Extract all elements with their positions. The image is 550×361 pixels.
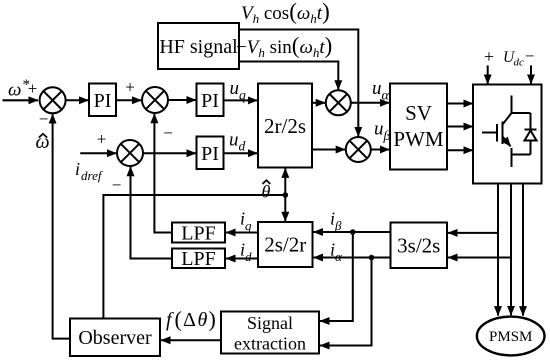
- summer circle 2: [142, 87, 168, 113]
- diode D1: [512, 113, 537, 155]
- wire PI2 to 2r2s uq: [224, 99, 258, 101]
- svg-text:α: α: [335, 249, 343, 264]
- multiplier M1: [326, 90, 351, 115]
- wire summer1 to PI1: [66, 99, 89, 101]
- svg-text:i: i: [75, 159, 80, 179]
- wire omega-hat from observer to summer1: [53, 114, 70, 339]
- svg-text:SV: SV: [405, 101, 432, 125]
- block inverter: [473, 85, 542, 184]
- wire summer3 to PI3: [143, 152, 196, 154]
- wire 2r2s to M2: [312, 149, 345, 151]
- wire inverter phase B: [510, 184, 512, 316]
- junction dot ialpha: [369, 255, 375, 261]
- svg-text:PI: PI: [94, 90, 112, 112]
- wire theta to 2r2s: [284, 168, 286, 195]
- svg-text:HF signal: HF signal: [159, 36, 238, 58]
- svg-text:θ: θ: [262, 182, 271, 202]
- multiplier M2: [346, 137, 371, 162]
- svg-text:u: u: [230, 78, 240, 99]
- svg-text:LPF: LPF: [181, 223, 215, 245]
- svg-text:Δ: Δ: [183, 309, 196, 331]
- wire Udc plus arrow: [487, 65, 489, 84]
- wire idref input: [80, 152, 116, 154]
- svg-text:2s/2r: 2s/2r: [264, 233, 306, 257]
- svg-text:d: d: [239, 139, 246, 154]
- svg-text:PI: PI: [201, 90, 219, 112]
- wire theta to 2s2r: [284, 195, 286, 221]
- block LPF1: [172, 223, 225, 243]
- svg-text:dref: dref: [81, 168, 104, 183]
- wire theta-hat from observer: [103, 195, 285, 319]
- wire HF cos output to multiplier M2: [239, 30, 358, 137]
- wire 3s2s to 2s2r ibeta: [314, 231, 391, 233]
- svg-text:): ): [209, 307, 216, 332]
- block 2r/2s: [258, 84, 312, 168]
- svg-text:q: q: [245, 218, 252, 233]
- svg-text:+: +: [125, 78, 135, 97]
- block Signal extraction: [221, 312, 319, 354]
- svg-text:3s/2s: 3s/2s: [397, 234, 440, 258]
- wire 3s2s to 2s2r ialpha: [314, 257, 391, 259]
- wire SVPWM to inverter 2: [447, 126, 473, 128]
- block 3s/2s: [391, 223, 448, 269]
- wire signal extraction to observer: [161, 339, 221, 341]
- wire 2s2r to LPF2 id: [226, 258, 258, 260]
- svg-text:Signal: Signal: [247, 313, 293, 333]
- svg-text:−: −: [163, 124, 173, 143]
- svg-text:α: α: [382, 89, 390, 104]
- block SV PWM: [390, 84, 447, 170]
- junction dot theta: [283, 192, 289, 198]
- svg-text:u: u: [372, 78, 382, 99]
- svg-text:ω: ω: [8, 80, 21, 101]
- wire HF sin output to multiplier M1: [239, 62, 338, 90]
- wire inverter phase A: [497, 184, 499, 316]
- svg-text:u: u: [229, 130, 239, 151]
- block LPF2: [172, 249, 225, 269]
- summer circle 1: [40, 87, 66, 113]
- svg-text:+: +: [28, 79, 38, 98]
- wire PI3 to 2r2s ud: [224, 152, 258, 154]
- wire 2s2r to LPF1 iq: [226, 232, 258, 234]
- block PMSM: [477, 317, 545, 356]
- svg-text:2r/2s: 2r/2s: [264, 114, 306, 138]
- summer circle 3: [117, 140, 143, 166]
- svg-text:d: d: [245, 249, 252, 264]
- wire SVPWM to inverter 3: [447, 149, 473, 151]
- wire LPF1 feedback to summer2: [154, 114, 172, 233]
- wire Udc minus arrow: [530, 65, 532, 84]
- wire SVPWM to inverter 1: [447, 103, 473, 105]
- svg-text:extraction: extraction: [234, 334, 306, 354]
- junction dot ibeta: [350, 229, 356, 235]
- svg-text:−: −: [525, 47, 535, 66]
- wire ialpha to signal extraction: [320, 258, 372, 346]
- svg-text:(: (: [175, 307, 182, 332]
- block Observer: [70, 319, 160, 357]
- block PI3: [197, 137, 224, 170]
- svg-text:q: q: [239, 88, 246, 103]
- svg-text:PWM: PWM: [393, 127, 444, 151]
- wire LPF2 feedback to summer3: [131, 167, 173, 259]
- svg-text:β: β: [334, 218, 342, 233]
- svg-text:PMSM: PMSM: [489, 329, 532, 345]
- block PI2: [197, 84, 224, 117]
- wire inverter phase C: [522, 184, 524, 316]
- svg-text:Observer: Observer: [78, 327, 152, 349]
- wire phase B tap to 3s2s: [448, 257, 511, 259]
- wire phase A tap to 3s2s: [448, 232, 498, 234]
- svg-text:+: +: [97, 130, 107, 149]
- wire 2r2s to M1: [312, 102, 325, 104]
- wire M1 to SVPWM ualpha: [351, 102, 390, 104]
- wire omega* input: [3, 99, 39, 101]
- block 2s/2r: [258, 222, 313, 267]
- svg-text:dc: dc: [514, 57, 525, 69]
- svg-text:PI: PI: [201, 143, 219, 165]
- transistor emitter arrow: [503, 137, 511, 147]
- wire PI1 to summer2: [116, 99, 142, 101]
- svg-text:−: −: [112, 176, 122, 195]
- svg-text:+: +: [484, 47, 494, 67]
- transistor IGBT: [482, 96, 531, 168]
- svg-text:u: u: [374, 119, 384, 140]
- svg-text:θ: θ: [198, 309, 208, 331]
- block PI1: [89, 84, 116, 117]
- svg-text:LPF: LPF: [181, 248, 215, 270]
- block HF signal: [158, 23, 239, 69]
- wire M2 to SVPWM ubeta: [371, 149, 390, 151]
- wire summer2 to PI2: [168, 99, 196, 101]
- wire ibeta to signal extraction: [320, 232, 353, 321]
